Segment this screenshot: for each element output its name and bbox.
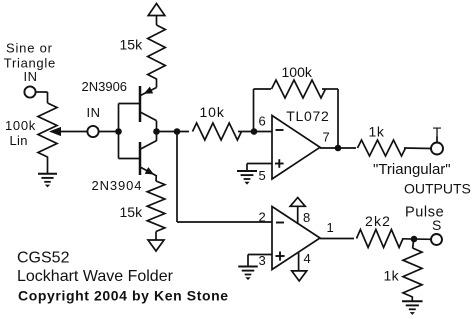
svg-text:100k: 100k xyxy=(5,118,36,133)
svg-text:2k2: 2k2 xyxy=(365,213,391,229)
svg-text:IN: IN xyxy=(87,105,101,120)
svg-text:7: 7 xyxy=(323,130,330,145)
svg-text:Lin: Lin xyxy=(10,133,28,148)
svg-text:15k: 15k xyxy=(120,37,144,53)
svg-text:2N3906: 2N3906 xyxy=(82,79,128,94)
svg-text:5: 5 xyxy=(259,168,266,183)
svg-text:100k: 100k xyxy=(282,64,313,80)
svg-text:8: 8 xyxy=(303,210,310,225)
svg-text:10k: 10k xyxy=(200,104,225,120)
svg-text:Sine or: Sine or xyxy=(6,40,53,55)
svg-text:IN: IN xyxy=(24,69,38,84)
svg-text:15k: 15k xyxy=(120,204,144,220)
svg-text:Copyright 2004 by Ken Stone: Copyright 2004 by Ken Stone xyxy=(18,288,229,304)
svg-text:Lockhart Wave Folder: Lockhart Wave Folder xyxy=(17,268,174,285)
svg-text:S: S xyxy=(432,217,441,233)
svg-text:6: 6 xyxy=(259,114,266,129)
svg-text:3: 3 xyxy=(259,253,266,268)
svg-text:2: 2 xyxy=(259,210,266,225)
svg-text:"Triangular": "Triangular" xyxy=(373,161,451,178)
svg-text:2N3904: 2N3904 xyxy=(92,178,143,193)
svg-text:4: 4 xyxy=(304,251,311,266)
svg-text:1: 1 xyxy=(327,220,334,235)
svg-text:OUTPUTS: OUTPUTS xyxy=(404,181,471,197)
svg-text:T: T xyxy=(433,124,442,140)
svg-text:1k: 1k xyxy=(369,123,385,139)
svg-text:CGS52: CGS52 xyxy=(17,250,70,267)
svg-text:TL072: TL072 xyxy=(286,108,329,124)
svg-text:1k: 1k xyxy=(384,268,400,284)
